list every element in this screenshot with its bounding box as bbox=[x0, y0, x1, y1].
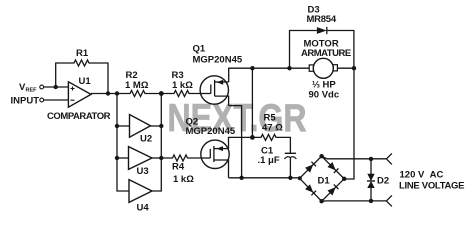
svg-text:120 V AC: 120 V AC bbox=[400, 170, 444, 181]
svg-text:U2: U2 bbox=[140, 134, 152, 145]
svg-text:MGP20N45: MGP20N45 bbox=[193, 55, 243, 66]
svg-text:LINE VOLTAGE: LINE VOLTAGE bbox=[399, 181, 464, 192]
svg-text:R4: R4 bbox=[172, 162, 185, 173]
svg-text:1 kΩ: 1 kΩ bbox=[173, 174, 194, 185]
svg-text:MR854: MR854 bbox=[307, 14, 337, 25]
svg-text:1 MΩ: 1 MΩ bbox=[125, 80, 149, 91]
svg-text:MGP20N45: MGP20N45 bbox=[186, 126, 236, 137]
svg-text:U1: U1 bbox=[79, 76, 92, 87]
svg-text:REF: REF bbox=[26, 88, 38, 94]
svg-text:ARMATURE: ARMATURE bbox=[301, 48, 351, 59]
svg-text:47 Ω: 47 Ω bbox=[262, 122, 283, 133]
svg-text:D2: D2 bbox=[377, 175, 389, 186]
svg-text:COMPARATOR: COMPARATOR bbox=[47, 111, 111, 122]
svg-text:90 Vdc: 90 Vdc bbox=[309, 90, 340, 101]
svg-text:INPUT: INPUT bbox=[11, 96, 40, 107]
svg-text:U4: U4 bbox=[137, 203, 150, 214]
svg-text:1 kΩ: 1 kΩ bbox=[172, 80, 193, 91]
svg-text:.1 μF: .1 μF bbox=[258, 155, 280, 166]
svg-text:U3: U3 bbox=[137, 166, 149, 177]
svg-text:R1: R1 bbox=[76, 48, 89, 59]
svg-text:D1: D1 bbox=[318, 176, 331, 187]
svg-text:Q1: Q1 bbox=[193, 44, 206, 55]
